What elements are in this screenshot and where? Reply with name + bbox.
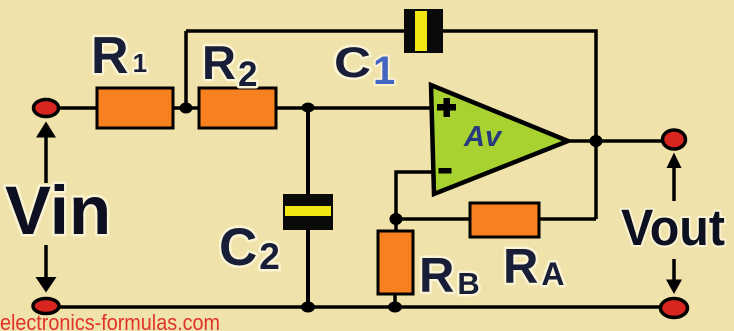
- Vin measurement arrow upper: [36, 122, 56, 184]
- Vin measurement arrow lower: [36, 245, 57, 293]
- svg-text:C: C: [334, 39, 371, 87]
- wire op-amp output: [563, 139, 663, 143]
- node junction R1-R2: [180, 103, 193, 114]
- svg-text:Av: Av: [463, 121, 503, 153]
- resistor RB: [378, 231, 413, 294]
- wire top feedback rail through C1: [186, 31, 596, 219]
- resistor R1: [97, 88, 173, 128]
- capacitor C2: [283, 194, 333, 230]
- capacitor C1: [404, 9, 443, 53]
- wire C2 vertical: [306, 108, 310, 307]
- node inverting junction: [390, 213, 403, 225]
- terminal input bottom: [33, 299, 59, 314]
- resistor R2: [199, 88, 276, 128]
- terminal output bottom: [661, 299, 688, 318]
- wire RB bottom lead: [393, 293, 397, 307]
- node C2 bottom junction: [301, 302, 315, 313]
- terminal output top: [663, 130, 686, 149]
- wire main input horizontal: [46, 106, 434, 110]
- resistor RA: [470, 203, 539, 237]
- svg-text:Vout: Vout: [621, 199, 725, 256]
- node junction C2 top: [302, 103, 315, 113]
- wire branch from node A up to top feedback rail: [184, 31, 188, 110]
- wire bottom ground rail: [46, 305, 674, 309]
- wire feedback lower to RA: [396, 217, 596, 221]
- terminal input top: [34, 100, 59, 117]
- svg-text:Vin: Vin: [5, 172, 111, 249]
- node RB bottom junction: [388, 302, 402, 313]
- wire inverting input: [396, 172, 434, 232]
- Vout measurement arrow upper: [667, 153, 682, 202]
- node output junction: [590, 135, 603, 147]
- Vout measurement arrow lower: [666, 259, 682, 294]
- svg-text:electronics-formulas.com: electronics-formulas.com: [0, 310, 220, 331]
- svg-text:1: 1: [373, 49, 395, 93]
- op-amp U1: [431, 85, 568, 194]
